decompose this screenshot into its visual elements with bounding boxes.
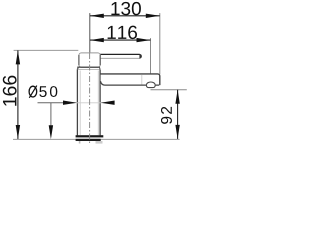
dimension 92 top arrow	[175, 90, 179, 104]
neck flare left	[77, 67, 79, 69]
dimension 166 text	[3, 76, 17, 106]
base plate top bar	[76, 135, 104, 137]
dimension 130 text	[111, 2, 141, 15]
neck flare right	[98, 67, 101, 70]
base plate bottom bar	[76, 139, 101, 141]
spout tube	[100, 74, 159, 88]
knob bottom dark line	[77, 66, 100, 68]
faucet centerline (dash-dot)	[89, 53, 91, 145]
extension line right for 130	[159, 13, 161, 74]
extension line top for 166	[14, 49, 79, 51]
collar line under knob	[78, 68, 100, 70]
rod tip cap	[139, 54, 142, 59]
lever cap / knob	[77, 53, 100, 70]
dimension 130 right arrow	[146, 14, 160, 18]
O50 faint line through body	[65, 102, 114, 104]
faucet body cylinder	[77, 66, 100, 135]
spout top edge, right edge	[100, 74, 159, 85]
spout underside with root fillet	[100, 81, 159, 85]
extension line left of top dims	[89, 13, 91, 53]
shank stub below base	[96, 141, 103, 144]
dimension 116 text	[108, 26, 137, 39]
O50 drop arrow to base	[49, 125, 53, 139]
dimension 166 top arrow	[16, 50, 20, 64]
dimension 92 line	[177, 90, 179, 139]
O50 right arrow	[101, 101, 115, 105]
O50 left arrow	[63, 101, 77, 105]
dimension 92 extension line	[151, 89, 187, 91]
dimension 92 bottom arrow	[175, 125, 179, 139]
lever rod	[100, 54, 142, 59]
dimension O50 symbol	[29, 86, 37, 98]
dimension 166 bottom arrow	[16, 125, 20, 139]
spout seam near outlet	[141, 75, 143, 85]
dimension 130 left arrow	[90, 14, 104, 18]
dimension 130 line	[90, 15, 160, 17]
dimension 92 text	[161, 107, 172, 124]
dimension 166 line	[17, 50, 19, 139]
dimension O50 text	[39, 86, 57, 97]
O50 leader line under text	[38, 102, 65, 104]
mounting surface baseline	[13, 138, 180, 140]
O50 drop leader line	[50, 103, 52, 126]
dimension 116 line	[90, 39, 151, 41]
aerator	[146, 82, 155, 88]
dimension 116 left arrow	[90, 38, 104, 42]
dimension 116 right arrow	[137, 38, 151, 42]
supply stub left below base	[79, 141, 81, 144]
extension line right for 116	[150, 38, 152, 83]
